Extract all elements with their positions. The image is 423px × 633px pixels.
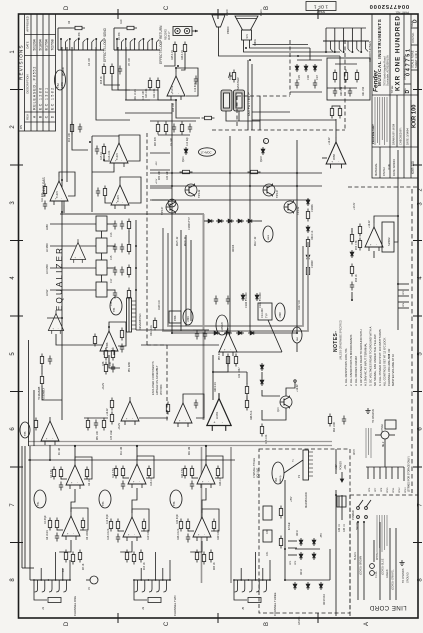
svg-text:DESCRIPTION: DESCRIPTION <box>26 74 30 93</box>
svg-text:5/02/94: 5/02/94 <box>33 39 37 50</box>
svg-text:P6900: P6900 <box>226 26 230 34</box>
resistor R66 <box>245 398 248 411</box>
svg-text:-16V: -16V <box>344 465 347 470</box>
wire <box>251 64 253 130</box>
aux components above strips <box>86 418 89 431</box>
svg-text:DATE: DATE <box>26 41 30 48</box>
capacitor C31 <box>226 296 230 305</box>
svg-text:CR904: CR904 <box>233 244 235 252</box>
mid horizontal wires <box>213 371 247 373</box>
svg-text:R66 51K: R66 51K <box>250 410 253 420</box>
channel three stage 2 op-amp U12B <box>179 509 219 543</box>
svg-text:R11 1M: R11 1M <box>121 447 123 455</box>
labels <box>356 240 358 282</box>
pot stamp TB6 volume <box>170 490 182 508</box>
diode CR901 <box>184 147 188 155</box>
svg-text:EC 1321: EC 1321 <box>45 87 49 110</box>
svg-text:R18 10.2K: R18 10.2K <box>107 528 110 540</box>
svg-text:C45 .022: C45 .022 <box>389 348 391 358</box>
boxed label CR-100C TYP <box>258 303 272 320</box>
svg-text:DRAWING NUMBER: DRAWING NUMBER <box>403 55 407 80</box>
op-amp U1A <box>50 177 68 205</box>
bias labels <box>188 204 314 268</box>
reverb area extra caps <box>195 331 199 340</box>
svg-text:R28 10.2K: R28 10.2K <box>177 528 180 540</box>
svg-text:C12 47pF: C12 47pF <box>195 81 197 92</box>
wire verticals <box>171 103 173 300</box>
diode CR20 <box>241 293 245 301</box>
right column: headphone limiter amp U6 <box>365 222 394 252</box>
wire <box>72 47 88 150</box>
channel one stage 1 op-amp U10A <box>52 457 92 491</box>
wire <box>229 255 231 333</box>
svg-text:5/18/94: 5/18/94 <box>39 39 43 50</box>
wire <box>50 267 96 269</box>
svg-text:R916 .22: R916 .22 <box>185 236 187 246</box>
capacitor C6 <box>118 66 122 75</box>
svg-text:TITLE:: TITLE: <box>390 85 394 94</box>
title block <box>372 14 418 178</box>
zone numbers left edge <box>10 50 16 582</box>
wire <box>246 372 248 384</box>
resistor R52 <box>110 398 113 411</box>
resistor R10 <box>70 122 73 135</box>
wire <box>50 245 96 247</box>
resistor R90 <box>328 414 331 427</box>
bias chain diode CR908 <box>306 198 310 206</box>
wire <box>335 449 337 474</box>
svg-text:MASTER: MASTER <box>236 77 240 90</box>
wire <box>91 136 93 212</box>
svg-text:MAINBOARD: MAINBOARD <box>304 492 308 508</box>
wire <box>296 300 298 333</box>
dashed power supply boundary <box>259 449 350 613</box>
wire <box>126 47 150 100</box>
svg-text:-15V: -15V <box>156 161 158 166</box>
connector stubs CP5 CP6 CP10 <box>288 541 297 565</box>
resistor R63 <box>166 402 169 415</box>
resistor R72 <box>358 238 361 251</box>
svg-text:CP7: CP7 <box>375 487 377 492</box>
svg-text:(CORD)- BROWN: (CORD)- BROWN <box>360 555 363 575</box>
diode CR22 <box>260 363 264 371</box>
svg-text:CP3: CP3 <box>403 290 405 295</box>
svg-text:R14 7.5K: R14 7.5K <box>112 468 115 478</box>
wire <box>96 47 130 120</box>
power area extra labels <box>291 496 323 575</box>
svg-text:Scottsdale, AZ 85258 USA: Scottsdale, AZ 85258 USA <box>385 55 389 86</box>
resistor R18 <box>102 64 105 77</box>
labels <box>155 137 189 146</box>
wire <box>202 488 206 513</box>
note ENCLOSED COMPONENTS <box>151 361 163 395</box>
svg-text:EFFECTS LOOP RETURN: EFFECTS LOOP RETURN <box>159 25 163 64</box>
record out jacks J8 J9 <box>165 27 199 41</box>
svg-text:LB06: LB06 <box>268 234 270 240</box>
svg-text:J3: J3 <box>141 607 145 611</box>
svg-text:1: 1 <box>10 50 16 54</box>
wire <box>150 120 196 122</box>
EQ network capacitor C17 <box>113 267 117 276</box>
wire <box>74 446 76 461</box>
resistor R12 <box>139 550 142 563</box>
svg-text:C4 .047: C4 .047 <box>89 57 91 66</box>
svg-text:R21 1M: R21 1M <box>189 447 191 455</box>
svg-text:R68 10K: R68 10K <box>265 434 268 444</box>
svg-text:CR20 BY100C: CR20 BY100C <box>245 292 248 308</box>
bridge diode CR12 <box>299 552 303 560</box>
wire <box>56 334 103 345</box>
gnd line cord <box>399 560 404 566</box>
svg-text:A: A <box>364 622 370 626</box>
resistor R3 <box>64 550 67 563</box>
svg-text:C2 47pF: C2 47pF <box>45 515 47 524</box>
op-amp U2C <box>111 181 129 209</box>
svg-text:R61 150: R61 150 <box>362 86 365 96</box>
gnd chassis <box>365 408 370 414</box>
transistor Q903 TIP147 <box>263 184 279 199</box>
svg-text:CHANNEL TWO: CHANNEL TWO <box>173 595 177 616</box>
svg-text:C22 47pF: C22 47pF <box>177 513 179 524</box>
wire speaker bundle <box>219 27 341 56</box>
svg-text:NE-2: NE-2 <box>383 441 385 447</box>
capacitor C10b <box>96 188 100 197</box>
wire <box>226 111 260 121</box>
svg-text:+16.9V: +16.9V <box>296 384 299 392</box>
channel two stage 2 op-amp U11B <box>109 509 149 543</box>
resistor R96 <box>279 506 282 519</box>
svg-text:3. ALL DIODES 1N4448: 3. ALL DIODES 1N4448 <box>354 356 358 386</box>
connector stubs mid <box>150 153 176 207</box>
svg-text:1 OF 1: 1 OF 1 <box>314 5 328 10</box>
labels small <box>145 50 319 98</box>
wire <box>296 343 298 352</box>
transistor Q2 <box>86 576 98 590</box>
wire pointer <box>268 320 282 352</box>
svg-text:CP15: CP15 <box>354 449 356 455</box>
wire <box>249 255 251 333</box>
wire labels <box>354 552 410 590</box>
svg-text:PA4: PA4 <box>275 477 278 482</box>
svg-text:+16.2V: +16.2V <box>106 408 109 416</box>
resistor R57 <box>226 354 229 367</box>
resistor R24 <box>202 116 215 119</box>
svg-text:R15 1K: R15 1K <box>100 152 103 160</box>
line cord wires <box>358 522 396 600</box>
svg-text:120VAC: 120VAC <box>298 616 301 625</box>
svg-text:ASSEMBLY: ASSEMBLY <box>43 387 46 400</box>
svg-text:CP12: CP12 <box>399 487 401 493</box>
bias chain resistor R912 <box>306 237 309 250</box>
svg-text:LOW: LOW <box>45 289 49 296</box>
capacitor C11 <box>43 201 47 210</box>
svg-text:LB09: LB09 <box>279 312 282 318</box>
svg-text:KXR 100: KXR 100 <box>411 161 415 174</box>
svg-text:SP1: SP1 <box>246 33 249 38</box>
svg-text:7/27/98: 7/27/98 <box>51 39 55 50</box>
svg-text:1. ALL RESISTORS 1/4W, 5%: 1. ALL RESISTORS 1/4W, 5% <box>344 348 348 386</box>
svg-text:1K: 1K <box>62 569 65 572</box>
svg-text:DATE: 3/14/94: DATE: 3/14/94 <box>406 128 410 145</box>
fuse F1 output test <box>221 90 232 111</box>
svg-text:B: B <box>264 6 270 10</box>
resistor R89 <box>338 106 341 119</box>
svg-text:Q901: Q901 <box>183 156 185 162</box>
wire <box>164 54 175 66</box>
svg-text:POWER: POWER <box>340 461 343 470</box>
svg-text:TIP142: TIP142 <box>197 189 201 198</box>
svg-text:2. ALL CAPACITORS IN MICROFAR: 2. ALL CAPACITORS IN MICROFARADS <box>349 334 353 386</box>
transistor Q902 TIP147 <box>160 201 178 216</box>
capacitor C44 <box>342 416 346 425</box>
svg-text:R915 .22: R915 .22 <box>177 236 179 246</box>
svg-text:C42 .01: C42 .01 <box>339 523 341 532</box>
svg-text:CR16 6A4: CR16 6A4 <box>323 594 326 605</box>
svg-text:TB2: TB2 <box>56 83 60 88</box>
svg-text:NE5532: NE5532 <box>388 237 391 246</box>
svg-text:C10 22p: C10 22p <box>187 137 189 146</box>
svg-text:CR10: CR10 <box>297 529 299 536</box>
wire <box>205 446 207 460</box>
svg-text:TIP147: TIP147 <box>275 189 279 198</box>
capacitor C9 <box>172 124 176 133</box>
wire <box>135 300 137 330</box>
wire <box>30 579 34 581</box>
svg-text:R7 47K: R7 47K <box>119 32 121 40</box>
channel one stage 2 op-amp U10B <box>48 508 88 542</box>
svg-text:OUT J7: OUT J7 <box>168 31 171 40</box>
resistor R15 <box>102 144 105 157</box>
svg-text:17.4VDC: 17.4VDC <box>201 150 212 154</box>
oval stamp L10501B <box>216 315 228 335</box>
EQ network resistor R33 <box>127 265 130 278</box>
channel three stage 1 op-amp U12A <box>183 456 223 490</box>
op-amp U401 <box>326 137 346 168</box>
wire long vertical <box>61 318 63 420</box>
svg-text:R48: R48 <box>102 361 105 366</box>
misc labels <box>41 150 113 366</box>
wire <box>84 417 108 419</box>
op-amp U2B <box>167 72 185 100</box>
svg-text:J5: J5 <box>241 607 245 611</box>
wire long right <box>397 150 399 330</box>
svg-text:4: 4 <box>10 276 16 280</box>
svg-text:R10: R10 <box>120 19 123 24</box>
input jack J1 <box>33 552 77 616</box>
svg-text:R25 4.7K: R25 4.7K <box>171 50 174 60</box>
svg-text:RELEASED, P8552: RELEASED, P8552 <box>33 66 37 110</box>
resistor R28 <box>164 122 167 135</box>
wire <box>139 417 168 419</box>
diode CR21 <box>255 293 259 301</box>
svg-text:R24 7.5K: R24 7.5K <box>181 468 184 478</box>
svg-text:5. DC VOLTAGES READ TO GROUND: 5. DC VOLTAGES READ TO GROUND WITH A <box>369 327 373 386</box>
svg-text:+15V: +15V <box>156 178 158 184</box>
resistor R71 <box>358 224 361 237</box>
svg-text:D: D <box>64 621 70 626</box>
gray trace outer <box>163 228 308 331</box>
wire <box>286 382 295 396</box>
svg-text:R4 7.5K: R4 7.5K <box>50 469 53 478</box>
third resistors below stage2 <box>71 552 74 565</box>
resistor R26 <box>183 42 186 55</box>
stamp oval PA2 <box>292 327 302 343</box>
limiter network box <box>327 58 370 100</box>
svg-text:SHEET: SHEET <box>316 10 325 13</box>
dashed main board boundary <box>147 133 167 423</box>
wire <box>290 91 322 93</box>
EQ network capacitor C14 <box>120 221 124 230</box>
resistor R13 <box>125 550 128 563</box>
resistor R5 <box>68 20 85 29</box>
jumper note <box>366 428 371 458</box>
svg-text:TB4: TB4 <box>113 307 116 312</box>
svg-text:TL072: TL072 <box>116 153 119 160</box>
wire <box>171 300 173 333</box>
wire <box>50 289 96 291</box>
svg-text:R26 4.7K: R26 4.7K <box>181 50 184 60</box>
resistor R53 <box>110 412 113 425</box>
svg-text:R29 100K: R29 100K <box>217 529 220 540</box>
svg-text:LINE CORD: LINE CORD <box>369 604 406 611</box>
resistor R911 <box>153 318 156 331</box>
pot stamp TB2 <box>55 70 66 90</box>
resistor R23 <box>148 78 151 91</box>
svg-text:C16 .047: C16 .047 <box>143 90 145 100</box>
EQ op-amp <box>70 239 85 263</box>
svg-text:TB3: TB3 <box>102 501 105 506</box>
EQ network resistor R34 <box>127 288 130 301</box>
svg-text:TB1: TB1 <box>37 501 40 506</box>
svg-text:P6900: P6900 <box>227 9 229 16</box>
wire <box>373 251 375 258</box>
svg-text:A: A <box>33 115 37 118</box>
effects loop return jack J7 <box>114 19 160 50</box>
label BY100C <box>245 292 262 308</box>
wire <box>42 386 62 400</box>
diode CR14 <box>293 582 297 590</box>
wire <box>120 541 132 552</box>
svg-text:R5 100K: R5 100K <box>63 67 65 76</box>
svg-text:R19 100K: R19 100K <box>147 529 150 540</box>
reverb tank stamp TB4 <box>110 297 122 315</box>
resistor R25 <box>173 42 176 55</box>
resistor R49 <box>111 348 114 361</box>
wire <box>107 289 115 291</box>
svg-text:REV: REV <box>410 21 414 27</box>
svg-text:3: 3 <box>10 201 16 205</box>
svg-text:D: D <box>64 5 70 10</box>
wire <box>66 47 68 182</box>
svg-text:R57 47K: R57 47K <box>219 351 221 360</box>
svg-text:4. AC VOLTAGES READ TO GROUND: 4. AC VOLTAGES READ TO GROUND WITH <box>359 329 363 386</box>
wire <box>339 56 341 90</box>
resistor R41 <box>40 374 43 387</box>
wire <box>341 495 343 520</box>
svg-text:+35V: +35V <box>291 496 293 502</box>
svg-text:CR6: CR6 <box>307 75 310 80</box>
svg-text:R73 7.5K: R73 7.5K <box>356 240 358 250</box>
stamp oval LB06 <box>263 226 273 242</box>
svg-text:R13 1K: R13 1K <box>144 562 146 570</box>
extra wires upper middle <box>230 60 346 474</box>
svg-text:ALL CONTROLS SET AT 12 O'CLOCK: ALL CONTROLS SET AT 12 O'CLOCK <box>383 338 387 386</box>
wire <box>284 460 303 473</box>
wire <box>246 396 248 400</box>
svg-text:D: D <box>51 115 55 118</box>
capacitor C52 <box>194 76 198 85</box>
svg-text:NO SIGNAL, FAN UNDER THE YELLO: NO SIGNAL, FAN UNDER THE YELLOW <box>373 334 377 386</box>
svg-text:TO REVERB: TO REVERB <box>39 386 41 400</box>
svg-text:CR-100C: CR-100C <box>261 308 264 318</box>
wire <box>190 541 202 552</box>
svg-text:TL072: TL072 <box>117 195 120 202</box>
labels channel one <box>46 469 91 572</box>
EQ network resistor R32 <box>127 242 130 255</box>
wire <box>172 332 212 334</box>
svg-text:PA2: PA2 <box>296 336 299 341</box>
resistor R27 <box>156 122 159 135</box>
svg-text:4558: 4558 <box>106 342 109 348</box>
power switch S1 <box>351 500 371 530</box>
wire bus <box>28 459 235 461</box>
right column extras: resistor chain <box>350 232 353 245</box>
diode CR914 <box>248 331 256 335</box>
svg-text:6: 6 <box>10 427 16 431</box>
svg-text:TL072: TL072 <box>170 85 174 93</box>
diode CR16 <box>319 582 323 590</box>
gray board edge <box>60 213 204 215</box>
svg-text:R3 1K: R3 1K <box>83 563 85 570</box>
svg-text:APPEAR ON ASSEMBLY: APPEAR ON ASSEMBLY <box>155 365 159 395</box>
svg-text:REV: REV <box>26 114 30 120</box>
svg-text:C41: C41 <box>266 551 269 556</box>
svg-text:CR903 TYP: CR903 TYP <box>188 217 191 230</box>
speaker SP1 woofer <box>235 16 258 46</box>
svg-text:C907 100: C907 100 <box>299 299 301 310</box>
svg-text:UNLESS OTHERWISE SPECIFIED: UNLESS OTHERWISE SPECIFIED <box>340 320 343 360</box>
svg-text:GROUND: GROUND <box>407 572 410 583</box>
svg-text:CR12: CR12 <box>301 568 303 575</box>
wire <box>262 408 286 420</box>
notes block <box>333 320 395 386</box>
diode row CR903 <box>206 219 214 223</box>
svg-text:TB6: TB6 <box>173 501 176 506</box>
capacitor C24 <box>295 80 299 89</box>
svg-text:(CORD)- BLUE: (CORD)- BLUE <box>382 558 385 575</box>
op-amp U4A <box>174 399 192 427</box>
svg-text:6. FULL POWER OUTPUT: 100 WAT: 6. FULL POWER OUTPUT: 100 WATTS RMS <box>378 329 382 386</box>
diode CR902 <box>261 147 265 155</box>
svg-text:CP6: CP6 <box>295 560 297 565</box>
svg-text:R10 10K: R10 10K <box>69 133 71 142</box>
wire <box>109 322 126 346</box>
wire <box>132 488 137 513</box>
svg-text:TB5: TB5 <box>24 431 27 436</box>
wire <box>63 205 65 214</box>
wire <box>252 119 336 121</box>
diode CR6 <box>304 64 308 72</box>
svg-text:PROPRIETARY: PROPRIETARY <box>371 124 375 144</box>
svg-text:R6 47K: R6 47K <box>79 32 81 40</box>
svg-text:A 3.5MV AC AT INPUT TERMINAL: A 3.5MV AC AT INPUT TERMINAL <box>364 343 368 386</box>
effects loop send jack J6 <box>58 28 104 50</box>
EQ network resistor R31 <box>127 219 130 232</box>
wire <box>109 355 120 368</box>
pot stamp TB3 volume <box>99 490 111 508</box>
capacitor C7 <box>78 124 82 133</box>
frame zone ticks top edge <box>118 9 318 19</box>
